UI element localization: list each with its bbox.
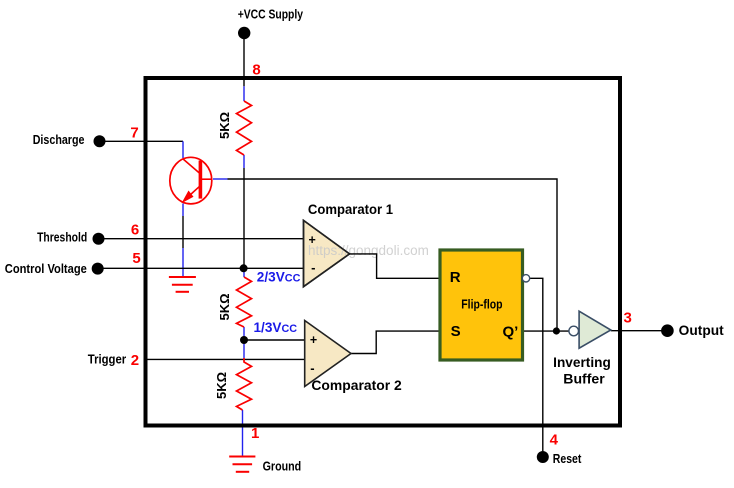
resistor R2 5KΩ — [237, 277, 252, 327]
svg-text:https://gongdoli.com: https://gongdoli.com — [308, 243, 429, 258]
svg-text:4: 4 — [550, 432, 559, 449]
svg-text:1: 1 — [251, 425, 259, 442]
wire: R1 bottom blue stub — [243, 155, 245, 168]
IC boundary box — [146, 78, 621, 426]
svg-text:Trigger: Trigger — [88, 351, 126, 366]
wire: blue stub below 2/3 node — [243, 268, 245, 277]
op-amp U1 comparator 1 — [304, 220, 350, 286]
svg-text:-: - — [310, 360, 314, 375]
ground (transistor emitter) — [169, 277, 196, 292]
wire: comparator 2 output to S input — [351, 331, 440, 353]
svg-text:Discharge: Discharge — [33, 132, 85, 147]
svg-text:1/3VCC: 1/3VCC — [254, 320, 298, 335]
wire: emitter blue segment to ground — [182, 248, 184, 276]
terminal Control Voltage — [92, 263, 104, 275]
svg-text:Flip-flop: Flip-flop — [461, 297, 502, 312]
svg-text:+VCC Supply: +VCC Supply — [238, 7, 304, 22]
flip-flop inverted reset bubble — [522, 275, 529, 282]
svg-text:R: R — [450, 269, 461, 286]
svg-text:Buffer: Buffer — [563, 372, 605, 387]
wire: discharge horizontal pin 7 — [100, 140, 184, 142]
wire: blue drop from discharge to transistor top — [182, 141, 184, 158]
flip-flop U3 — [440, 250, 523, 360]
wire: blue stub below top border to R1 — [243, 86, 245, 101]
svg-text:Threshold: Threshold — [37, 229, 87, 244]
op-amp U2 comparator 2 — [305, 321, 351, 387]
wire: blue stub below 1/3 node across trigger line — [243, 340, 245, 358]
wire: Q' output to buffer bubble — [523, 330, 570, 332]
terminal Threshold — [93, 233, 105, 245]
wire: trigger pin 2 — [148, 358, 305, 360]
svg-text:8: 8 — [252, 62, 260, 79]
wire: transistor base blue stub — [213, 178, 228, 180]
resistor R1 5KΩ — [237, 101, 252, 155]
terminal +VCC Supply — [238, 27, 250, 39]
wire: base line to right column — [228, 179, 558, 331]
wire: transistor emitter down (blue stub) — [182, 204, 184, 217]
terminal Discharge — [94, 135, 106, 147]
wire: buffer output to pin 3 — [611, 330, 662, 332]
svg-text:5KΩ: 5KΩ — [217, 293, 232, 320]
wire: pin1 blue wire through bottom border to ground — [242, 410, 244, 457]
wire: comparator 1 output to R input — [350, 254, 441, 278]
svg-text:3: 3 — [624, 310, 632, 327]
svg-text:5: 5 — [132, 250, 140, 267]
svg-text:Inverting: Inverting — [553, 355, 611, 370]
svg-text:5KΩ: 5KΩ — [217, 112, 232, 139]
wire: VCC pin 8 drop into box — [243, 39, 245, 86]
svg-text:Ground: Ground — [263, 459, 302, 474]
svg-text:Control Voltage: Control Voltage — [5, 261, 87, 276]
wire: control voltage pin 5 — [98, 267, 303, 269]
resistor R3 5KΩ — [237, 358, 252, 410]
svg-text:Q’: Q’ — [503, 324, 519, 341]
wire: emitter black segment — [182, 216, 184, 248]
node 2/3VCC junction — [240, 264, 248, 272]
svg-text:+: + — [310, 333, 317, 347]
svg-text:Output: Output — [679, 323, 725, 338]
ground (pin 1, bottom) — [229, 457, 255, 472]
node Q' junction — [553, 327, 560, 334]
svg-text:5KΩ: 5KΩ — [214, 372, 229, 399]
svg-text:6: 6 — [131, 221, 139, 238]
terminal Reset (pin 4) — [537, 451, 549, 463]
terminal Output (pin 3) — [661, 324, 674, 337]
op-amp U1 outline redraw — [304, 220, 350, 286]
svg-text:Comparator 2: Comparator 2 — [311, 378, 401, 393]
transistor Q1 (discharge transistor) — [170, 157, 212, 204]
wire: flip-flop bubble to reset pin 4 — [530, 278, 543, 451]
svg-text:S: S — [451, 323, 461, 340]
svg-text:2: 2 — [131, 352, 139, 369]
svg-text:Reset: Reset — [553, 451, 582, 466]
wire: 1/3 node to comparator 2 plus input — [244, 339, 305, 341]
wire: chain black from R1 to 2/3 node — [243, 168, 245, 268]
svg-text:Comparator 1: Comparator 1 — [308, 202, 394, 217]
node 1/3VCC junction — [240, 336, 248, 344]
wire: blue stub above 1/3 node — [243, 327, 245, 340]
wire: threshold pin 6 — [99, 238, 304, 240]
svg-text:-: - — [311, 260, 315, 275]
inverting buffer U4 — [569, 326, 579, 336]
svg-text:7: 7 — [130, 125, 138, 142]
svg-text:2/3VCC: 2/3VCC — [257, 270, 301, 285]
